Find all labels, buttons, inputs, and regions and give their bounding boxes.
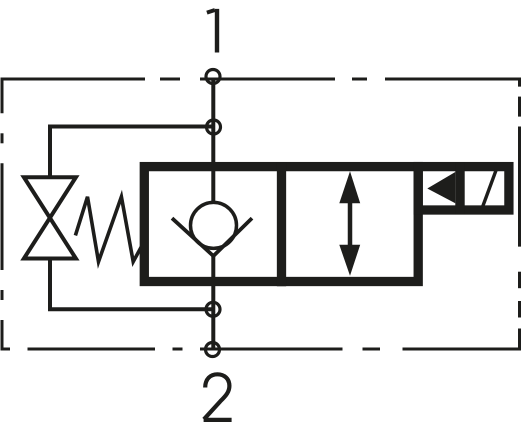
enclosure dash-dot border: left edge — [1, 133, 4, 300]
solenoid: actuator outer box — [418, 167, 509, 210]
node: port 2 circle on bottom border — [206, 343, 220, 357]
wire: port 1 line from top border through junction circle down to check valve — [211, 79, 215, 201]
check valve: V seat — [172, 218, 252, 256]
check valve: poppet ball circle — [191, 202, 237, 248]
label: port 2 — [204, 374, 232, 420]
arrow: top arrowhead — [339, 171, 360, 203]
arrow: double-headed flow arrow shaft — [348, 195, 353, 250]
valve body: main 2/2 valve outer box — [144, 167, 418, 282]
node: junction circle on pilot branch (lower) — [206, 302, 220, 316]
node: port 1 circle on top border — [206, 70, 220, 84]
arrow: bottom arrowhead — [339, 245, 360, 276]
wire: pilot line from junction circle 2 left and down to shut-off valve — [50, 127, 214, 178]
enclosure dash-dot border: right edge — [403, 97, 520, 349]
label: port 1 — [207, 9, 217, 53]
spring: return spring zigzag — [75, 197, 141, 262]
valve V1: shut-off valve (hourglass) symbol — [24, 177, 76, 258]
valve body: center divider between the two cells — [277, 162, 286, 286]
enclosure dash-dot border: top edge — [2, 79, 520, 113]
solenoid: divider between pilot cell and coil cell — [455, 162, 464, 214]
wire: check valve seat apex down through junction circle to port circle 2 — [211, 255, 215, 350]
enclosure dash-dot border: bottom edge — [2, 320, 380, 349]
node: junction circle on pilot branch (upper) — [207, 120, 221, 134]
solenoid: coil diagonal slash — [483, 169, 497, 206]
solenoid: pilot triangle (filled, pointing left) — [427, 172, 455, 203]
wire: pilot line from shut-off valve bottom down and right to junction circle 3 — [50, 259, 213, 310]
